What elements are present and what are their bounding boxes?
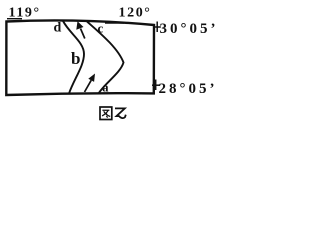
svg-text:c: c — [98, 21, 104, 36]
svg-text:b: b — [71, 49, 80, 68]
svg-text:d: d — [54, 21, 62, 36]
svg-text:28°05’: 28°05’ — [159, 81, 218, 97]
svg-text:a: a — [102, 81, 109, 95]
svg-text:120°: 120° — [119, 6, 152, 21]
svg-text:30°05’: 30°05’ — [160, 21, 218, 37]
